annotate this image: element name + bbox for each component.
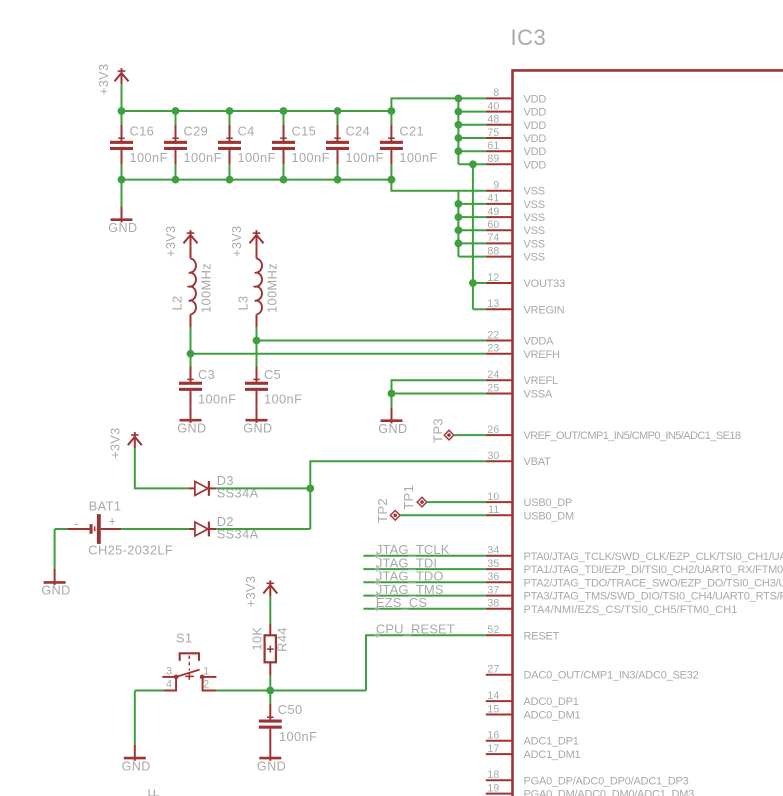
IC3 pin 27 DAC0_OUT/CMP1_IN3/ADC0_SE32: [486, 664, 699, 682]
svg-text:GND: GND: [243, 421, 272, 435]
wire VDD corner to pin 89: [458, 163, 485, 165]
svg-text:52: 52: [487, 624, 499, 636]
IC IC3 microcontroller box: [511, 25, 783, 796]
svg-text:61: 61: [487, 140, 499, 152]
test point TP3: [430, 418, 454, 443]
wire VDD stub pin 75: [458, 137, 485, 139]
ground GND below C50: [257, 745, 286, 774]
svg-text:VSSA: VSSA: [524, 389, 553, 401]
wire VSSA to pin 25: [392, 393, 486, 395]
svg-text:USB0_DM: USB0_DM: [524, 510, 574, 522]
svg-text:C3: C3: [198, 367, 215, 382]
svg-text:VSS: VSS: [524, 199, 545, 211]
wire VSSA to ground: [391, 394, 393, 408]
svg-text:75: 75: [487, 127, 499, 139]
svg-text:PTA0/JTAG_TCLK/SWD_CLK/EZP_CLK: PTA0/JTAG_TCLK/SWD_CLK/EZP_CLK/TSI0_CH1/…: [524, 551, 783, 563]
IC3 pin 52 RESET: [486, 624, 560, 642]
svg-text:+3V3: +3V3: [244, 576, 258, 607]
svg-text:100nF: 100nF: [198, 391, 236, 406]
svg-text:C21: C21: [399, 123, 424, 138]
svg-text:VDD: VDD: [524, 133, 547, 145]
wire VSS stub pin 49: [458, 216, 485, 218]
svg-text:2: 2: [203, 679, 209, 691]
svg-text:L2: L2: [170, 295, 185, 310]
resistor R44 10K: [250, 623, 290, 675]
svg-text:GND: GND: [108, 221, 137, 235]
svg-text:11: 11: [488, 504, 499, 516]
svg-text:48: 48: [487, 114, 499, 126]
IC3 pin 49 VSS: [486, 206, 545, 224]
svg-text:VSS: VSS: [524, 225, 545, 237]
svg-text:38: 38: [487, 598, 499, 610]
svg-text:EZS_CS: EZS_CS: [376, 595, 427, 610]
svg-text:100nF: 100nF: [399, 150, 437, 165]
wire battery plus to D2 anode: [121, 528, 189, 530]
IC3 pin 15 ADC0_DM1: [486, 703, 581, 721]
+3V3 supply symbol at L2: [164, 226, 198, 257]
junction VOUT33: [469, 279, 477, 287]
svg-text:VSS: VSS: [524, 186, 545, 198]
junction: [280, 107, 288, 183]
test point TP2: [375, 498, 400, 523]
diode D3 SS34A: [189, 473, 259, 501]
IC3 pin 61 VDD: [486, 140, 547, 158]
svg-text:74: 74: [487, 232, 499, 244]
wire VSS stub pin 60: [458, 229, 485, 231]
ground GND below battery: [41, 569, 70, 598]
capacitor C3 100nF: [179, 367, 236, 407]
wire net EZS_CS: [363, 595, 485, 611]
IC3 pin 12 VOUT33: [486, 272, 565, 290]
svg-text:VDD: VDD: [524, 107, 547, 119]
junction: [118, 107, 126, 183]
svg-text:3: 3: [166, 665, 172, 677]
svg-text:C4: C4: [238, 123, 255, 138]
test point TP1: [401, 485, 427, 510]
svg-text:18: 18: [487, 769, 499, 781]
wire net JTAG_TDI: [363, 555, 485, 571]
svg-text:4: 4: [166, 679, 172, 691]
svg-text:PGA0_DM/ADC0_DM0/ADC1_DM3: PGA0_DM/ADC0_DM0/ADC1_DM3: [524, 789, 695, 796]
svg-text:16: 16: [487, 730, 499, 742]
svg-text:VSS: VSS: [524, 252, 545, 264]
svg-text:ADC1_DP1: ADC1_DP1: [524, 736, 579, 748]
svg-text:GND: GND: [177, 421, 206, 435]
junction diode cathodes node: [306, 485, 314, 493]
wire 3V3 top rail: [122, 110, 392, 112]
svg-text:100nF: 100nF: [238, 150, 276, 165]
svg-text:100nF: 100nF: [184, 150, 222, 165]
svg-text:40: 40: [487, 100, 499, 112]
svg-text:+3V3: +3V3: [97, 64, 111, 95]
IC3 pin 9 VSS: [486, 180, 545, 198]
svg-text:C5: C5: [264, 367, 281, 382]
wire net CPU_RESET: [366, 622, 486, 691]
capacitor C29 100nF: [164, 111, 222, 180]
svg-text:CH25-2032LF: CH25-2032LF: [88, 543, 173, 558]
wire arrow to L3: [256, 246, 258, 258]
svg-text:89: 89: [487, 153, 499, 165]
junction C21 bottom: [388, 176, 396, 184]
ground GND below C5: [243, 407, 272, 436]
capacitor C16 100nF: [110, 111, 168, 180]
svg-text:14: 14: [487, 690, 499, 702]
svg-text:VDD: VDD: [524, 146, 547, 158]
wire net JTAG_TMS: [363, 582, 485, 598]
+3V3 supply symbol at L3: [230, 226, 264, 257]
svg-text:TP3: TP3: [430, 418, 445, 443]
svg-text:VDDA: VDDA: [524, 336, 555, 348]
svg-text:60: 60: [487, 219, 499, 231]
svg-text:GND: GND: [257, 759, 286, 773]
wire TP3 to pin 26: [454, 434, 486, 436]
svg-text:100nF: 100nF: [130, 150, 168, 165]
svg-text:100MHz: 100MHz: [264, 263, 279, 313]
IC3 pin 38 PTA4/NMI/EZS_CS/TSI0_CH5/FTM0_CH1: [486, 598, 738, 616]
junction reset node: [266, 687, 274, 695]
wire TP2 to pin 11: [400, 514, 486, 516]
capacitor C21 100nF: [380, 111, 438, 180]
junction: [226, 107, 234, 183]
svg-text:37: 37: [487, 584, 499, 596]
svg-text:CPU_RESET: CPU_RESET: [376, 622, 455, 637]
wire node down to D2 row: [309, 488, 311, 529]
wire D3 cathode to node: [216, 487, 310, 489]
switch S1: [162, 630, 216, 690]
svg-text:PGA0_DP/ADC0_DP0/ADC1_DP3: PGA0_DP/ADC0_DP0/ADC1_DP3: [524, 775, 689, 787]
svg-text:41: 41: [487, 193, 499, 205]
IC3 pin 41 VSS: [486, 193, 545, 211]
junction VSSA: [388, 390, 396, 398]
svg-text:30: 30: [487, 450, 499, 462]
junction VDD bus dots: [455, 95, 477, 169]
capacitor C5 100nF: [245, 367, 302, 407]
svg-text:25: 25: [487, 382, 499, 394]
svg-text:VOUT33: VOUT33: [524, 278, 566, 290]
junction VSS bus dots: [455, 200, 463, 247]
svg-text:C29: C29: [184, 123, 209, 138]
svg-text:GND: GND: [378, 422, 407, 436]
IC3 pin 48 VDD: [486, 114, 547, 132]
wire battery minus to ground: [55, 529, 68, 569]
IC3 pin 60 VSS: [486, 219, 545, 237]
net label F at bottom edge: [147, 788, 164, 796]
capacitor C50 100nF: [259, 691, 317, 746]
ground GND below S1: [122, 745, 151, 774]
IC3 pin 26 VREF_OUT/CMP1_IN5/CMP0_IN5/ADC1_SE18: [486, 424, 741, 442]
svg-text:19: 19: [487, 782, 499, 794]
IC3 pin 19 PGA0_DM/ADC0_DM0/ADC1_DM3: [486, 782, 694, 796]
wire R44 to reset node: [269, 676, 271, 691]
svg-text:VBAT: VBAT: [524, 456, 552, 468]
svg-text:34: 34: [487, 545, 499, 557]
svg-text:10: 10: [487, 491, 499, 503]
svg-text:22: 22: [487, 329, 499, 341]
IC3 pin 16 ADC1_DP1: [486, 730, 579, 748]
svg-text:C16: C16: [130, 123, 155, 138]
IC3 pin 24 VREFL: [486, 369, 558, 387]
IC3 pin 8 VDD: [486, 87, 547, 105]
inductor L3 100MHz: [236, 259, 280, 328]
svg-text:49: 49: [487, 206, 499, 218]
svg-text:-: -: [74, 517, 79, 531]
wire TP1 to pin 10: [427, 501, 486, 503]
svg-text:VREGIN: VREGIN: [524, 304, 565, 316]
+3V3 supply symbol at D3: [108, 427, 142, 458]
IC3 pin 13 VREGIN: [486, 298, 565, 316]
wire VDD stub pin 48: [458, 124, 485, 126]
wire VREFL to pin 24: [392, 380, 486, 393]
svg-text:BAT1: BAT1: [89, 498, 122, 513]
junction: [334, 107, 342, 183]
svg-text:S1: S1: [176, 630, 192, 645]
wire reset node row: [135, 690, 366, 692]
IC3 pin 10 USB0_DP: [486, 491, 572, 509]
svg-text:PTA1/JTAG_TDI/EZP_DI/TSI0_CH2/: PTA1/JTAG_TDI/EZP_DI/TSI0_CH2/UART0_RX/F…: [524, 564, 783, 576]
svg-text:VDD: VDD: [524, 93, 547, 105]
svg-text:23: 23: [487, 343, 499, 355]
wire VBAT to pin 30: [310, 461, 486, 488]
IC3 pin 36 PTA2/JTAG_TDO/TRACE_SWO/EZP_DO/TSI0_CH3/UART0_TX/FTM0_CH7: [486, 571, 783, 589]
svg-text:RESET: RESET: [524, 630, 560, 642]
capacitor C4 100nF: [218, 111, 276, 180]
IC3 pin 35 PTA1/JTAG_TDI/EZP_DI/TSI0_CH2/UART0_RX/FTM0_CH6: [486, 558, 783, 576]
svg-text:TP1: TP1: [401, 485, 416, 510]
svg-text:+3V3: +3V3: [164, 226, 178, 257]
junction: [388, 107, 396, 183]
IC3 pin 37 PTA3/JTAG_TMS/SWD_DIO/TSI0_CH4/UART0_RTS/FTM0_CH0: [486, 584, 783, 602]
svg-text:+3V3: +3V3: [108, 427, 122, 458]
svg-text:GND: GND: [122, 759, 151, 773]
svg-text:VREF_OUT/CMP1_IN5/CMP0_IN5/ADC: VREF_OUT/CMP1_IN5/CMP0_IN5/ADC1_SE18: [524, 430, 741, 442]
wire VDDA to pin 22: [257, 340, 486, 342]
svg-text:100nF: 100nF: [292, 150, 330, 165]
svg-text:C24: C24: [346, 123, 371, 138]
svg-text:8: 8: [493, 87, 499, 99]
svg-text:VDD: VDD: [524, 120, 547, 132]
svg-text:DAC0_OUT/CMP1_IN3/ADC0_SE32: DAC0_OUT/CMP1_IN3/ADC0_SE32: [524, 670, 699, 682]
wire D2 cathode to node: [216, 528, 310, 530]
svg-text:F: F: [147, 788, 164, 796]
IC3 pin 22 VDDA: [486, 329, 554, 347]
svg-text:15: 15: [487, 703, 499, 715]
wire S1 to ground: [134, 691, 136, 745]
svg-text:USB0_DP: USB0_DP: [524, 497, 573, 509]
ground GND below C3: [177, 407, 206, 436]
svg-text:24: 24: [487, 369, 499, 381]
IC3 pin 18 PGA0_DP/ADC0_DP0/ADC1_DP3: [486, 769, 689, 787]
svg-text:13: 13: [487, 298, 499, 310]
svg-text:TP2: TP2: [375, 498, 390, 523]
IC3 pin 30 VBAT: [486, 450, 551, 468]
IC3 pin 14 ADC0_DP1: [486, 690, 579, 708]
svg-text:C15: C15: [292, 123, 317, 138]
svg-text:VSS: VSS: [524, 238, 545, 250]
IC3 pin 11 USB0_DM: [486, 504, 574, 522]
svg-text:ADC0_DM1: ADC0_DM1: [524, 710, 581, 722]
capacitor C15 100nF: [272, 111, 330, 180]
wire L3 to C5 and VDDA node: [256, 328, 258, 367]
wire L2 to C3 and VREFH node: [190, 328, 192, 367]
svg-text:+: +: [109, 515, 117, 529]
svg-text:PTA2/JTAG_TDO/TRACE_SWO/EZP_DO: PTA2/JTAG_TDO/TRACE_SWO/EZP_DO/TSI0_CH3/…: [524, 577, 783, 589]
wire VDD stub pin 40: [458, 111, 485, 113]
junction VDDA: [253, 337, 261, 345]
wire +3V3 to top rail: [121, 84, 123, 111]
svg-text:GND: GND: [41, 584, 70, 598]
svg-text:VREFL: VREFL: [524, 375, 558, 387]
svg-text:IC3: IC3: [511, 25, 547, 50]
wire GND bottom rail: [122, 179, 392, 181]
wire VDD rail to pin 8: [391, 98, 485, 111]
wire net JTAG_TDO: [363, 569, 485, 585]
IC3 pin 17 ADC1_DM1: [486, 743, 581, 761]
svg-text:10K: 10K: [250, 627, 265, 651]
svg-text:36: 36: [487, 571, 499, 583]
svg-text:C50: C50: [278, 702, 303, 717]
IC3 pin 25 VSSA: [486, 382, 553, 400]
wire VDD bus vertical: [457, 98, 459, 164]
svg-text:1: 1: [203, 665, 209, 677]
svg-text:88: 88: [487, 245, 499, 257]
IC3 pin 74 VSS: [486, 232, 545, 250]
ground GND below C16: [121, 180, 123, 207]
svg-text:12: 12: [487, 272, 499, 284]
IC3 pin 75 VDD: [486, 127, 547, 145]
wire VSS bus vertical: [457, 191, 459, 257]
svg-text:VSS: VSS: [524, 212, 545, 224]
svg-text:+3V3: +3V3: [230, 226, 244, 257]
IC3 pin 88 VSS: [486, 245, 545, 263]
svg-text:100nF: 100nF: [279, 729, 317, 744]
ground GND below VSSA: [378, 407, 407, 436]
+3V3 supply symbol at R44: [244, 576, 277, 607]
wire arrow to L2: [190, 246, 192, 258]
svg-text:ADC1_DM1: ADC1_DM1: [524, 749, 581, 761]
svg-text:R44: R44: [275, 627, 290, 652]
wire VDD down to VOUT33/VREGIN: [473, 164, 486, 309]
svg-text:L3: L3: [236, 295, 251, 310]
svg-text:9: 9: [493, 180, 499, 192]
svg-text:ADC0_DP1: ADC0_DP1: [524, 696, 579, 708]
svg-text:35: 35: [487, 558, 499, 570]
IC3 pin 34 PTA0/JTAG_TCLK/SWD_CLK/EZP_CLK/TSI0_CH1/UART0_CTS/FTM0_CH5: [486, 545, 783, 563]
wire +3V3 to R44: [269, 596, 271, 623]
wire VREFH to pin 23: [191, 353, 486, 355]
wire net JTAG_TCLK: [363, 542, 485, 558]
svg-text:100MHz: 100MHz: [198, 263, 213, 313]
svg-text:PTA4/NMI/EZS_CS/TSI0_CH5/FTM0_: PTA4/NMI/EZS_CS/TSI0_CH5/FTM0_CH1: [524, 604, 738, 616]
diode D2 SS34A: [189, 514, 259, 542]
IC3 pin 40 VDD: [486, 100, 547, 118]
wire +3V3 to D3 anode: [135, 448, 189, 488]
wire VSS stub pin 41: [458, 203, 485, 205]
junction VREFH: [187, 350, 195, 358]
wire VSS corner to pin 88: [458, 256, 485, 258]
IC3 pin 23 VREFH: [486, 343, 560, 361]
IC3 pin 89 VDD: [486, 153, 547, 171]
junction: [172, 107, 180, 183]
svg-text:VREFH: VREFH: [524, 349, 560, 361]
battery BAT1 CH25-2032LF: [67, 498, 173, 557]
inductor L2 100MHz: [170, 259, 214, 328]
wire GND rail to pin 9: [391, 180, 485, 191]
svg-text:100nF: 100nF: [264, 391, 302, 406]
svg-text:100nF: 100nF: [346, 150, 384, 165]
wire VDD stub pin 61: [458, 150, 485, 152]
svg-text:26: 26: [487, 424, 499, 436]
capacitor C24 100nF: [326, 111, 384, 180]
+3V3 supply symbol at C16: [97, 64, 129, 95]
svg-text:17: 17: [487, 743, 499, 755]
svg-text:27: 27: [487, 664, 499, 676]
svg-text:VDD: VDD: [524, 159, 547, 171]
svg-text:PTA3/JTAG_TMS/SWD_DIO/TSI0_CH4: PTA3/JTAG_TMS/SWD_DIO/TSI0_CH4/UART0_RTS…: [524, 591, 783, 603]
wire VSS stub pin 74: [458, 242, 485, 244]
